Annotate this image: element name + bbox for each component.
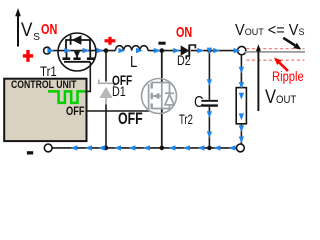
minus label at input bottom <box>27 151 33 154</box>
capacitor branch wire <box>208 51 210 100</box>
OFF drive wire from control unit to Tr2 gate <box>87 110 149 112</box>
label D2 <box>177 54 191 68</box>
output corner terminal circle <box>238 46 246 54</box>
junction at capacitor branch <box>207 48 211 52</box>
label D1 <box>112 85 126 99</box>
label C <box>194 95 204 111</box>
bottom rail wire <box>52 147 237 149</box>
current arrows on load branch <box>239 67 244 74</box>
label Tr2 <box>179 113 193 127</box>
control unit box <box>4 79 86 141</box>
wire: inductor to D2 <box>148 50 181 52</box>
label VOUT <= VS <box>235 23 305 38</box>
label Tr1 <box>40 64 57 78</box>
Tr2 branch wires <box>161 51 163 83</box>
diode D1 (schottky, off, grey) <box>99 80 114 105</box>
label Ripple (red) <box>272 69 304 83</box>
Vout axis line <box>257 48 259 111</box>
current arrows on bottom rail <box>71 145 78 150</box>
black annotation arrow to Vs level <box>283 38 295 46</box>
ripple band red dashed lines <box>247 48 305 50</box>
label OFF (Tr2) <box>118 111 143 128</box>
wire: D2 to output corner <box>191 50 238 52</box>
top wire: input to inductor <box>50 50 115 52</box>
Tr1 body diode <box>71 35 82 58</box>
label ON (Tr1, red) <box>41 23 57 38</box>
label ON (D2, red) <box>176 25 192 40</box>
junction at inductor output node <box>160 48 165 53</box>
rail junction at Tr2 branch <box>160 146 165 151</box>
Tr2 channel arrow <box>153 93 159 99</box>
label OFF (D1) <box>112 73 132 87</box>
bottom right terminal circle <box>237 144 245 152</box>
transistor Tr2 (sync rectifier, off, grey) <box>142 79 177 114</box>
red annotation arrow to ripple <box>279 63 288 71</box>
Tr1 substrate arrow <box>74 51 80 58</box>
Vs source arrow <box>15 8 21 47</box>
green PWM waveform <box>48 91 86 103</box>
D1 branch wire <box>105 51 107 82</box>
rail junction at D1 branch <box>104 146 109 151</box>
label VOUT (output voltage) <box>265 88 296 107</box>
label OFF (control unit output) <box>66 105 85 117</box>
plus label at switch node (red) <box>105 39 116 42</box>
node junction at D1 branch <box>104 48 109 53</box>
transistor Tr1 (high side switch) <box>58 33 96 71</box>
load resistor <box>236 88 246 124</box>
inductor L coil <box>115 46 148 51</box>
rail junction at capacitor branch <box>207 146 212 151</box>
plus label at input (red) <box>23 54 33 57</box>
load branch wire top <box>240 55 242 88</box>
bottom left terminal circle <box>44 144 52 152</box>
label CONTROL UNIT <box>11 80 76 91</box>
label Vs (source voltage) <box>21 21 32 40</box>
gate drive wire from control unit to Tr1 <box>87 62 91 92</box>
input terminal circle <box>44 47 51 54</box>
label L <box>130 55 137 71</box>
current arrows on capacitor branch <box>207 48 212 55</box>
Vs level grey line (annotation) <box>245 51 305 53</box>
current arrows on top wire <box>47 48 54 53</box>
capacitor C plates <box>201 100 218 102</box>
diode D2 (schottky, on) <box>181 45 196 60</box>
load branch wire bottom <box>240 124 242 144</box>
minus label at inductor out <box>158 42 165 45</box>
